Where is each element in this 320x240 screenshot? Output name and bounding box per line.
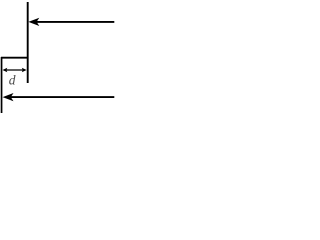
upper reflecting plane (right vertical line) xyxy=(27,2,29,83)
wire: top incident ray shaft xyxy=(37,21,115,23)
dimension arrowhead left xyxy=(3,68,8,73)
arrowhead of top incident ray xyxy=(28,18,39,26)
svg-text:d: d xyxy=(9,72,16,87)
step ledge (horizontal line) xyxy=(1,57,29,59)
dimension arrow shaft for d xyxy=(6,69,24,71)
dimension arrowhead right xyxy=(22,68,27,73)
wire: bottom incident ray shaft xyxy=(11,96,115,98)
lower reflecting plane (left vertical line) xyxy=(1,57,3,113)
arrowhead of bottom incident ray xyxy=(3,93,14,101)
